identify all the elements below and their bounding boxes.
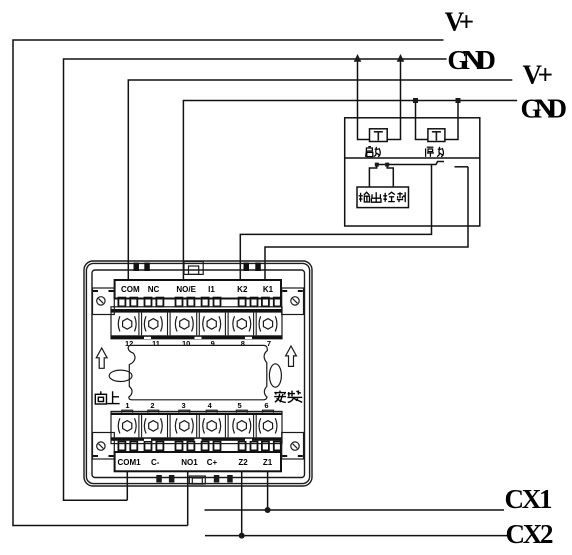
svg-text:CX1: CX1 — [505, 484, 553, 514]
svg-text:2: 2 — [150, 401, 154, 410]
svg-text:C+: C+ — [207, 458, 218, 467]
svg-text:Z1: Z1 — [263, 458, 273, 467]
svg-text:Z2: Z2 — [238, 458, 248, 467]
svg-text:K2: K2 — [237, 285, 248, 294]
svg-text:CX2: CX2 — [506, 519, 554, 549]
svg-text:C-: C- — [151, 458, 160, 467]
svg-text:6: 6 — [264, 401, 268, 410]
svg-text:COM: COM — [121, 285, 140, 294]
svg-text:5: 5 — [238, 401, 242, 410]
svg-text:GND: GND — [521, 94, 568, 124]
svg-text:11: 11 — [152, 339, 160, 348]
svg-text:4: 4 — [208, 401, 213, 410]
svg-text:NO/E: NO/E — [176, 285, 196, 294]
svg-text:NC: NC — [148, 285, 160, 294]
svg-text:8: 8 — [241, 339, 245, 348]
svg-text:COM1: COM1 — [117, 458, 141, 467]
svg-text:V+: V+ — [445, 7, 475, 37]
svg-text:3: 3 — [182, 401, 186, 410]
svg-text:I1: I1 — [208, 285, 215, 294]
svg-text:NO1: NO1 — [181, 458, 198, 467]
svg-text:7: 7 — [267, 339, 271, 348]
svg-text:9: 9 — [211, 339, 215, 348]
svg-text:K1: K1 — [263, 285, 274, 294]
svg-text:10: 10 — [182, 339, 190, 348]
svg-text:12: 12 — [125, 339, 133, 348]
svg-text:GND: GND — [447, 45, 496, 75]
svg-text:V+: V+ — [523, 60, 554, 90]
svg-text:1: 1 — [125, 401, 129, 410]
